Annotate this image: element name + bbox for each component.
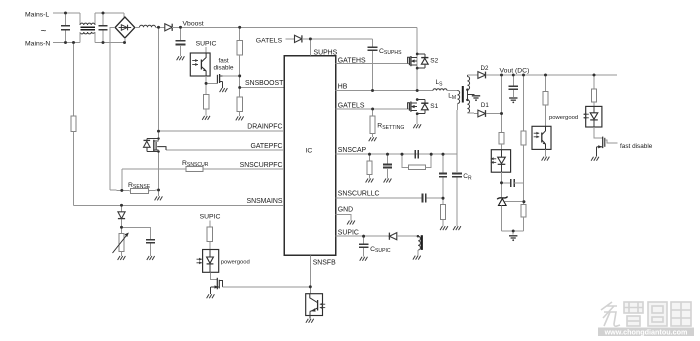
ground feedback opto — [309, 311, 311, 318]
node Vboost — [179, 26, 182, 29]
wire SUPIC pin — [336, 235, 364, 237]
wire GATEPFC — [166, 149, 284, 151]
wire Vout to right divider — [522, 74, 525, 77]
wire TL431 to bottom — [501, 206, 503, 232]
node boost inductor / DRAINPFC junction — [157, 26, 160, 29]
node junction dot — [386, 153, 389, 156]
svg-text:fast disable: fast disable — [620, 143, 653, 150]
node divider / SNSBOOST — [238, 86, 241, 89]
node junction dot — [179, 26, 182, 29]
resistor SNSCAP to ground — [369, 154, 371, 161]
node SNSCAP resistor tap — [368, 153, 371, 156]
wire right divider bottom — [523, 217, 525, 231]
node junction dot — [442, 153, 445, 156]
node SUPHS junction — [309, 38, 312, 41]
node junction dot — [362, 235, 365, 238]
wire divider middle — [239, 55, 241, 88]
svg-text:Vout (DC): Vout (DC) — [500, 68, 530, 75]
wire Vout to feedback column — [501, 75, 503, 132]
node junction dot — [72, 41, 75, 44]
node junction dot — [416, 53, 419, 56]
node junction dot — [500, 74, 503, 77]
wire to protection cap — [122, 227, 151, 239]
node junction dot — [512, 74, 515, 77]
node junction dot — [64, 41, 67, 44]
node SNSCAP divider cap — [442, 153, 445, 156]
transformer core aux — [421, 235, 423, 250]
node opto / gate junction — [205, 82, 208, 85]
node junction dot — [371, 89, 374, 92]
svg-text:SNSMAINS: SNSMAINS — [247, 198, 283, 205]
node junction dot — [238, 75, 241, 78]
wire primary bottom to CR column — [457, 104, 459, 111]
wire PFC source column — [158, 150, 160, 190]
svg-text:CSUPHS: CSUPHS — [379, 48, 402, 56]
wire Vboost to S2 drain — [416, 27, 418, 90]
diode D2 — [478, 72, 486, 79]
resistor divider upper — [239, 27, 241, 40]
capacitor X1 across mains — [64, 12, 67, 15]
svg-text:~: ~ — [41, 26, 47, 37]
wire secondary bottom to D1 — [467, 112, 478, 115]
transistor PFC MOSFET — [157, 147, 166, 150]
node junction dot — [157, 26, 160, 29]
wire GATELS label to diode — [286, 38, 295, 40]
op-amp IC main controller box — [284, 56, 336, 256]
ground aux winding — [413, 256, 415, 260]
wire Vout rail — [502, 74, 618, 76]
diode bootstrap — [295, 35, 302, 42]
wire SNSCURLLC — [336, 197, 422, 199]
svg-text:S1: S1 — [430, 103, 438, 110]
svg-text:D2: D2 — [481, 65, 489, 72]
wire Ls to transformer — [447, 90, 458, 92]
wire powergood drain to SNSFB — [222, 286, 310, 288]
node secondary center tap upper — [466, 89, 468, 91]
transformer secondary upper winding — [466, 75, 468, 77]
inductor Lm transformer primary — [458, 91, 460, 104]
transformer secondary lower winding — [467, 100, 469, 113]
wire S1 source to ground — [416, 114, 418, 124]
node junction dot — [205, 82, 208, 85]
wire PFC drain column — [158, 27, 160, 141]
svg-text:SUPHS: SUPHS — [314, 49, 338, 56]
wire bridge positive output — [135, 26, 140, 28]
svg-text:SUPIC: SUPIC — [200, 214, 221, 221]
ground PFC source — [158, 190, 160, 196]
capacitor SNSCAP to ground — [387, 154, 389, 164]
svg-text:GND: GND — [338, 207, 353, 214]
wire DRAINPFC — [159, 130, 285, 132]
wire opto emitter down — [205, 76, 207, 83]
wire junction to fast-disable gate — [206, 82, 217, 84]
node bottom ground tap — [512, 230, 515, 233]
resistor powergood — [545, 75, 547, 92]
svg-text:CR: CR — [463, 173, 472, 181]
capacitor SNSCURLLC series — [422, 194, 424, 203]
ground Vboost cap — [177, 56, 179, 60]
svg-text:Vboost: Vboost — [183, 21, 204, 28]
zener TL431 shunt regulator — [497, 196, 507, 199]
svg-text:RSETTING: RSETTING — [377, 123, 404, 131]
svg-text:HB: HB — [338, 83, 348, 90]
transformer core — [462, 86, 464, 103]
node GATELS / RSETTING — [371, 108, 374, 111]
ground CSUPIC — [360, 257, 362, 261]
diode SUPIC supply — [389, 233, 396, 240]
wire SNSFB column — [309, 256, 311, 294]
wire opto to MOSFET gate — [211, 272, 217, 279]
node SNSCURLLC junction — [442, 197, 445, 200]
wire SUPIC stub down — [209, 221, 211, 228]
transistor Q-fastdisable-1 MOSFET — [216, 75, 218, 84]
wire TL431 ref line — [505, 201, 524, 203]
wire mains sense to SNSMAINS — [73, 132, 75, 206]
node SNSFB junction — [309, 285, 312, 288]
transistor S1 MOSFET — [408, 103, 410, 109]
node RC left — [401, 153, 404, 156]
wire CSUPHS to HB — [372, 51, 374, 91]
node RSENSE left / SNSCURPFC tap — [120, 189, 123, 192]
ground fastdisable source — [220, 88, 222, 92]
wire opto LED to TL431 — [501, 172, 503, 197]
ground divider — [236, 116, 238, 120]
wire choke to bridge bottom — [95, 42, 125, 44]
wire Mains-L — [53, 12, 80, 14]
ground powergood opto — [542, 157, 544, 161]
svg-text:LS: LS — [436, 79, 444, 87]
watermark chongdiantou logo — [601, 302, 691, 326]
node Vout / D2 — [500, 74, 503, 77]
ground under pulldown resistor — [202, 116, 204, 120]
ground CR — [453, 226, 455, 230]
node divider / fastdisable drain — [238, 75, 241, 78]
wire bridge bottom vertex — [123, 41, 126, 44]
resistor fastdisable — [593, 75, 595, 89]
svg-text:SNSCURLLC: SNSCURLLC — [338, 190, 380, 197]
node junction dot — [416, 67, 419, 70]
node Vboost rail / divider tap — [238, 26, 241, 29]
node junction dot — [430, 153, 433, 156]
node PFC source / RSENSE — [157, 189, 160, 192]
svg-text:SNSBOOST: SNSBOOST — [245, 80, 284, 87]
wire powergood opto to ground — [545, 149, 547, 156]
svg-text:SNSCURPFC: SNSCURPFC — [240, 162, 283, 169]
node SNSCAP cap tap — [386, 153, 389, 156]
wire SNSCURPFC down to sense node — [121, 169, 123, 190]
diode boost — [165, 24, 172, 31]
node feedback cap junction — [500, 181, 503, 184]
node junction dot — [157, 130, 160, 133]
node junction dot — [157, 137, 159, 139]
wire SUPHS to IC top — [309, 39, 311, 56]
wire fastdisable source to ground — [222, 81, 224, 88]
wire GATEHS — [336, 63, 410, 65]
node junction dot — [416, 89, 419, 92]
capacitor X2 after choke — [102, 12, 105, 15]
wire D2 to Vout — [486, 74, 502, 76]
diode D1 — [478, 110, 486, 117]
node junction dot — [157, 189, 160, 192]
wire fastdisable drain to resistor column — [223, 75, 240, 77]
node junction dot — [123, 41, 126, 44]
node junction dot — [102, 12, 105, 15]
wire SUPIC to diode — [364, 235, 390, 237]
ground secondary center tap — [472, 95, 480, 97]
node junction dot — [309, 38, 312, 41]
transistor Q-powergood MOSFET — [216, 278, 218, 290]
wire diode to aux winding — [397, 235, 418, 237]
resistor right divider lower — [521, 204, 526, 217]
wire right divider middle — [523, 145, 525, 205]
wire bottom link — [502, 230, 524, 232]
node junction dot — [401, 153, 404, 156]
ground SNSCAP cap — [384, 179, 386, 183]
opto-coupler U4 LED fastdisable — [586, 106, 602, 127]
ground protection cap — [147, 256, 149, 260]
wire secondary center — [466, 90, 468, 100]
node junction dot — [500, 181, 503, 184]
ground S1 source — [413, 124, 415, 128]
diode PFC body diode — [157, 137, 159, 139]
node secondary center tap lower — [466, 99, 468, 101]
node junction dot — [416, 98, 419, 101]
node junction dot — [64, 12, 67, 15]
diode protection down — [121, 205, 123, 212]
wire mains sense column — [72, 41, 75, 44]
svg-text:GATELS: GATELS — [338, 102, 365, 109]
node junction dot — [120, 226, 123, 229]
capacitor Vout — [512, 74, 515, 77]
capacitor CR resonant — [452, 173, 462, 175]
wire Vboost rail — [181, 26, 418, 28]
wire SUPIC stub to opto — [205, 47, 207, 53]
resistor SNSCURLLC to ground — [442, 198, 444, 204]
node Vout / fastdisable resistor — [593, 74, 596, 77]
wire choke to bridge top — [95, 12, 124, 14]
ground Vout cap — [509, 97, 517, 99]
node junction dot — [417, 235, 419, 237]
wire SNSBOOST to IC — [240, 87, 284, 89]
svg-text:SUPIC: SUPIC — [338, 229, 359, 236]
svg-text:GATEPFC: GATEPFC — [250, 143, 282, 150]
node junction dot — [544, 74, 547, 77]
ground powergood source — [207, 294, 209, 298]
ground SNSCURLLC resistor — [440, 226, 442, 230]
node junction dot — [466, 89, 468, 91]
resistor SUPIC powergood — [207, 227, 212, 242]
wire D1 to Vout riser — [486, 113, 502, 115]
wire fastdisable gate label — [605, 140, 618, 143]
wire aux winding to ground — [417, 250, 419, 255]
node junction dot — [102, 41, 105, 44]
resistor RSETTING — [372, 109, 374, 116]
svg-text:disable: disable — [214, 65, 234, 72]
wire SNSCAP — [336, 153, 457, 155]
node HB / CSUPHS — [371, 89, 374, 92]
capacitor CSUPHS — [372, 39, 374, 47]
wire bridge top vertex — [123, 13, 125, 17]
inductor Ls — [433, 89, 447, 91]
ground fastdisable MOSFET — [591, 157, 593, 161]
opto-coupler U2 phototransistor powergood — [532, 126, 551, 149]
svg-text:S2: S2 — [430, 58, 438, 65]
node junction dot — [593, 74, 596, 77]
node DRAINPFC on drain column — [157, 130, 160, 133]
node protection junction — [120, 226, 123, 229]
node RC right — [430, 153, 433, 156]
resistor RSENSE — [131, 188, 149, 193]
node HB half-bridge — [416, 89, 419, 92]
svg-text:SUPIC: SUPIC — [196, 41, 217, 48]
wire secondary top to D2 — [467, 74, 478, 76]
node junction dot — [309, 285, 312, 288]
capacitor feedback compensation — [502, 182, 511, 184]
svg-text:IC: IC — [306, 147, 313, 154]
resistor RSNSCUR — [186, 167, 203, 172]
resistor divider lower — [237, 97, 242, 112]
opto-coupler U3 LED feedback — [491, 150, 510, 173]
wire HB to Ls — [417, 90, 433, 92]
capacitor Vboost bulk — [180, 27, 182, 40]
svg-text:D1: D1 — [481, 102, 489, 109]
bridge rectifier — [115, 17, 135, 38]
svg-text:LM: LM — [448, 93, 456, 101]
wire opto to fastdisable MOSFET — [594, 127, 602, 138]
ground RSETTING — [369, 137, 371, 141]
wire SNSCURPFC — [203, 168, 284, 170]
opto-coupler U2 phototransistor — [190, 53, 210, 76]
capacitor CSUPIC — [363, 236, 365, 243]
inductor auxiliary winding — [417, 235, 419, 237]
wire Mains-N — [53, 42, 80, 44]
svg-text:powergood: powergood — [221, 259, 250, 265]
resistor right divider upper — [521, 131, 526, 145]
ground SNSCAP resistor — [366, 179, 368, 183]
node junction dot — [500, 112, 503, 115]
ground varistor — [118, 256, 120, 260]
svg-text:SNSFB: SNSFB — [313, 259, 336, 266]
node junction dot — [371, 108, 374, 111]
node junction dot — [466, 99, 468, 101]
node junction dot — [523, 200, 526, 203]
transistor Q-fastdisable-2 MOSFET — [602, 137, 604, 149]
node junction dot — [416, 112, 419, 115]
node junction dot — [120, 204, 123, 207]
opto-coupler U3 LED powergood — [203, 250, 219, 273]
node junction dot — [157, 150, 159, 152]
svg-text:powergood: powergood — [549, 115, 578, 121]
resistor parallel RC loop — [402, 154, 408, 167]
transistor S2 MOSFET — [408, 57, 410, 63]
svg-text:SNSCAP: SNSCAP — [338, 147, 367, 154]
svg-text:DRAINPFC: DRAINPFC — [247, 124, 282, 131]
common-mode choke L-filter — [79, 13, 81, 25]
node Vout / powergood resistor — [544, 74, 547, 77]
svg-text:www.chongdiantou.com: www.chongdiantou.com — [604, 328, 688, 337]
varistor protection — [121, 227, 123, 233]
node junction dot — [120, 189, 123, 192]
opto-coupler U3 phototransistor feedback — [306, 294, 323, 316]
capacitor protection — [146, 239, 155, 241]
svg-text:GATEHS: GATEHS — [338, 57, 366, 64]
resistor pulldown under opto — [205, 83, 207, 94]
node junction dot — [238, 26, 241, 29]
ground feedback network — [509, 235, 517, 237]
node SUPIC / CSUPIC — [362, 235, 365, 238]
resistor feedback upper — [499, 132, 504, 144]
watermark url bar — [598, 328, 694, 337]
svg-text:fast: fast — [219, 58, 229, 65]
node junction dot — [442, 197, 445, 200]
wire bridge negative output — [110, 28, 115, 191]
wire GATELS pin — [336, 108, 410, 110]
svg-text:Mains-L: Mains-L — [25, 12, 49, 19]
node SNSMAINS / protection — [120, 204, 123, 207]
svg-text:CSUPIC: CSUPIC — [370, 246, 391, 254]
wire center tap to ground — [467, 94, 474, 96]
node junction dot — [512, 230, 515, 233]
node junction dot — [522, 74, 525, 77]
wire SNSMAINS — [74, 204, 285, 206]
inductor boost Lboost — [140, 25, 156, 27]
capacitor SNSCAP to SNSCURLLC — [442, 154, 444, 173]
wire HB — [336, 90, 418, 92]
svg-text:GATELS: GATELS — [256, 37, 283, 44]
node ref / right column — [523, 200, 526, 203]
wire GND pin — [336, 215, 351, 221]
node D1 / feedback column — [500, 112, 503, 115]
capacitor series RC — [414, 150, 416, 159]
svg-text:Mains-N: Mains-N — [25, 41, 50, 48]
ground GND pin — [347, 221, 349, 225]
node junction dot — [368, 153, 371, 156]
node junction dot — [238, 86, 241, 89]
resistor mains sense upper — [71, 116, 76, 132]
wire diode to CSUPHS — [302, 38, 373, 40]
